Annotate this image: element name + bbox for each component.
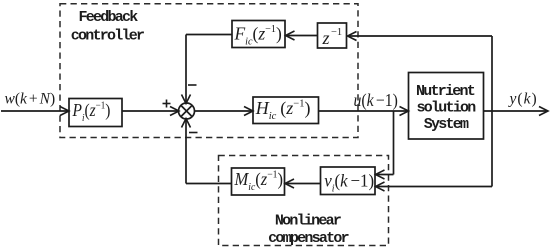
wire: input (1, 107, 69, 116)
svg-text:w(k+N): w(k+N) (5, 91, 56, 108)
label: Feedback controller (71, 9, 144, 45)
dashed box: Feedback controller (60, 4, 358, 138)
svg-text:Nonlinear: Nonlinear (275, 213, 341, 230)
wire: P to summing junction (122, 107, 179, 116)
node label u(k-1) (354, 90, 398, 110)
plus sign (163, 100, 171, 108)
minus sign (lower) (189, 132, 198, 134)
wire: branch from output feedback down to v block (376, 111, 493, 191)
wire: branch from u line down to v block (376, 111, 394, 179)
wire: output (484, 107, 549, 116)
svg-text:compensator: compensator (268, 230, 349, 247)
wire: z^-1 to F block (286, 31, 318, 40)
block V: v_i(k-1) (321, 167, 376, 195)
block P1: P_i(z^-1) (69, 99, 122, 127)
summing junction (circle with X) (179, 103, 195, 119)
svg-text:controller: controller (71, 28, 144, 45)
svg-text:solution: solution (416, 100, 476, 117)
block Z: z^-1 (318, 23, 347, 48)
block H: H_ic(z^-1) (253, 97, 319, 124)
svg-text:System: System (424, 116, 469, 133)
svg-text:Feedback: Feedback (78, 9, 138, 26)
minus sign (upper) (188, 84, 197, 86)
label: Nonlinear compensator (268, 213, 349, 248)
block: Nutrient solution System (409, 73, 484, 140)
svg-text:y(k): y(k) (508, 91, 538, 108)
wire: summing junction to H block (194, 107, 253, 116)
dashed box: Nonlinear compensator (219, 156, 389, 246)
svg-text:Nutrient: Nutrient (416, 83, 475, 100)
wire: v block to M block (285, 179, 321, 188)
wire: M block up to summing junction (minus input) (182, 119, 232, 184)
wire: H to Nutrient solution System (319, 107, 409, 116)
svg-text:u(k−1): u(k−1) (354, 90, 398, 110)
block F: F_ic(z^-1) (232, 21, 285, 48)
wire: feedback from output up to z^-1 (348, 32, 493, 112)
block M: M_ic(z^-1) (232, 168, 285, 195)
wire: F block down to summing junction (minus input) (182, 35, 233, 104)
